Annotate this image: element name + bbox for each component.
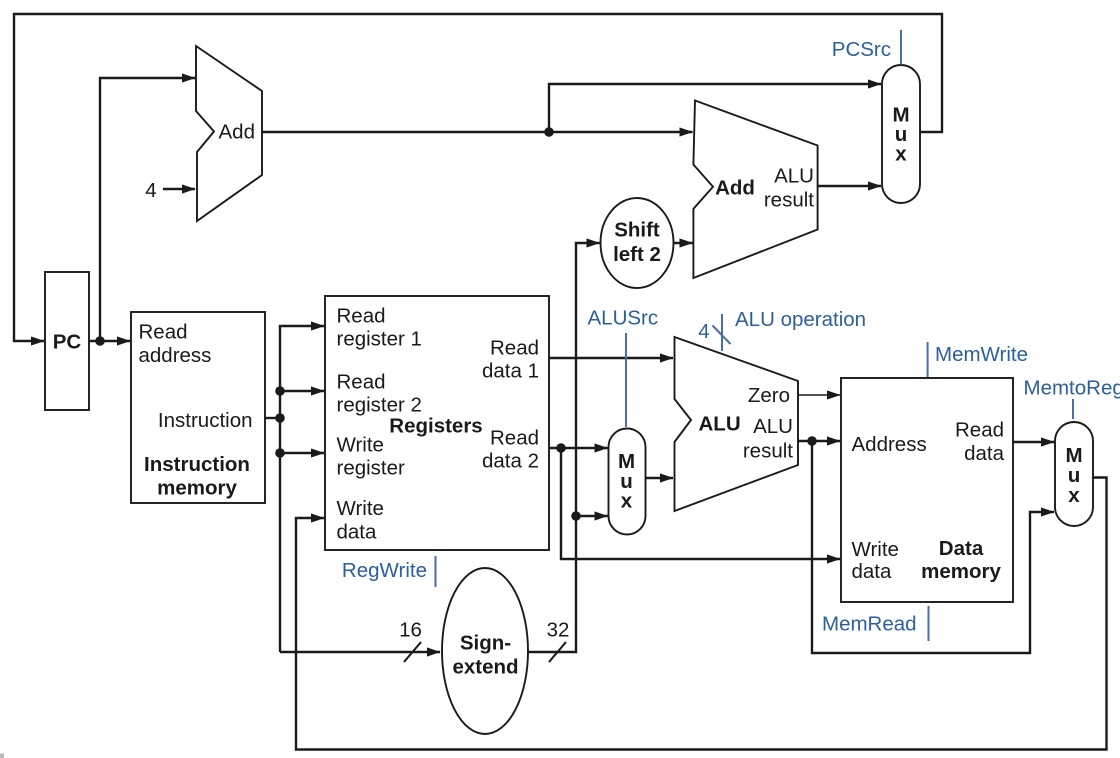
svg-text:x: x [895,143,907,166]
svg-text:data: data [852,560,892,583]
svg-text:data: data [337,521,377,544]
svg-text:Write: Write [852,538,899,561]
svg-text:data 2: data 2 [482,450,539,473]
svg-text:data 1: data 1 [482,360,539,383]
svg-text:PCSrc: PCSrc [832,38,891,61]
svg-text:Shift: Shift [614,219,660,242]
svg-text:Write: Write [337,434,384,457]
svg-text:Instruction: Instruction [144,453,250,476]
svg-text:x: x [621,490,633,513]
svg-text:ALU: ALU [753,415,793,438]
svg-text:data: data [964,442,1004,465]
svg-text:Read: Read [337,305,386,328]
svg-text:Sign-: Sign- [460,632,511,655]
svg-text:Data: Data [939,537,984,560]
svg-text:ALU: ALU [774,165,814,188]
svg-text:4: 4 [145,179,156,202]
svg-text:Read: Read [490,337,539,360]
svg-text:Add: Add [715,177,755,200]
svg-text:register 2: register 2 [337,394,422,417]
svg-text:Read: Read [139,321,188,344]
svg-text:RegWrite: RegWrite [342,559,427,582]
svg-text:Read: Read [955,419,1004,442]
svg-text:ALU: ALU [699,413,741,436]
svg-text:Instruction: Instruction [158,409,253,432]
svg-text:memory: memory [157,477,237,500]
svg-text:PC: PC [53,331,82,354]
svg-text:32: 32 [547,619,570,642]
svg-text:Add: Add [219,121,255,144]
svg-text:result: result [764,189,814,212]
svg-text:x: x [1068,484,1080,507]
svg-text:left 2: left 2 [613,243,661,266]
svg-text:ALU operation: ALU operation [735,308,866,331]
svg-text:Read: Read [490,427,539,450]
svg-text:Read: Read [337,371,386,394]
svg-text:address: address [139,344,212,367]
svg-text:Zero: Zero [748,384,790,407]
svg-text:memory: memory [921,560,1001,583]
svg-text:ALUSrc: ALUSrc [588,307,659,330]
svg-text:4: 4 [698,320,709,343]
svg-text:register: register [337,457,406,480]
svg-text:MemWrite: MemWrite [935,343,1028,366]
svg-text:MemtoReg: MemtoReg [1024,377,1120,400]
svg-text:Registers: Registers [389,415,482,438]
svg-text:Address: Address [852,433,927,456]
svg-text:register 1: register 1 [337,328,422,351]
svg-text:16: 16 [399,619,422,642]
svg-text:result: result [743,440,793,463]
svg-text:MemRead: MemRead [822,613,917,636]
svg-text:extend: extend [452,656,518,679]
svg-text:Write: Write [337,497,384,520]
